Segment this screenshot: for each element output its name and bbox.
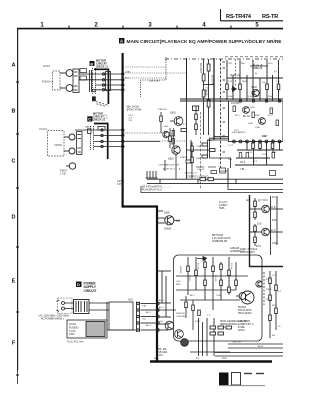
right edge vertical net xyxy=(269,196,283,255)
svg-text:D./L: D./L xyxy=(272,197,277,199)
pre-bus annotation rows xyxy=(158,164,197,175)
svg-text:3: 3 xyxy=(148,23,152,29)
svg-text:8.C: 8.C xyxy=(266,279,270,281)
box internal resistors xyxy=(187,262,238,293)
svg-text:D: D xyxy=(77,282,80,287)
ac plug xyxy=(57,300,74,312)
svg-text:R.B9: R.B9 xyxy=(196,158,202,160)
svg-text:C8.4: C8.4 xyxy=(268,63,273,65)
rec/pb jack xyxy=(66,163,76,169)
lower bus step wire xyxy=(228,172,283,190)
svg-text:C: C xyxy=(12,159,16,165)
footer legend black square xyxy=(219,373,229,386)
deck1 motor circuit caption xyxy=(96,59,108,69)
svg-text:R.B2: R.B2 xyxy=(255,115,260,117)
svg-text:2,t: 2,t xyxy=(196,357,199,360)
svg-text:1/4AC: 1/4AC xyxy=(125,71,131,74)
net tie box left xyxy=(220,168,226,173)
bus small links xyxy=(160,179,236,183)
transistor Q607 xyxy=(250,205,270,213)
svg-text:(DECK 1): (DECK 1) xyxy=(96,65,108,69)
svg-text:BC.AA: BC.AA xyxy=(243,115,250,118)
lower bus line xyxy=(141,186,283,193)
svg-text:RP7/AC08: RP7/AC08 xyxy=(212,234,224,237)
small transistor Q611 xyxy=(256,281,262,287)
mains assembly box xyxy=(109,302,133,330)
transistor D603 lower filled xyxy=(181,339,189,347)
net stub y66 xyxy=(250,65,268,67)
transformer secondary wires xyxy=(89,302,109,330)
svg-text:B.4: B.4 xyxy=(272,335,276,337)
svg-text:PWLA W3CK: PWLA W3CK xyxy=(238,312,252,315)
Q607 labels xyxy=(258,200,276,209)
deck1 marker B xyxy=(90,61,95,66)
svg-text:C.B2: C.B2 xyxy=(196,146,202,148)
svg-text:F: F xyxy=(12,341,16,347)
inner edge nets to connector xyxy=(158,271,176,330)
mid cluster transistor Q604 xyxy=(163,131,169,137)
mid enrich parts xyxy=(160,112,192,163)
right field horizontal nets xyxy=(180,78,283,165)
footer legend baseline xyxy=(219,385,265,387)
svg-text:C.B: C.B xyxy=(276,81,280,83)
svg-text:AEnna +B: AEnna +B xyxy=(252,64,263,67)
Q602 resistors xyxy=(191,142,194,168)
deck1 connector note xyxy=(104,115,108,120)
deck2 flex wedge xyxy=(88,126,106,133)
svg-text:BTC14.4ETP: BTC14.4ETP xyxy=(238,310,252,312)
upper dashes second row xyxy=(225,56,283,58)
mains rating text xyxy=(38,315,70,321)
power supply marker D xyxy=(76,282,82,288)
svg-text:G.m: G.m xyxy=(154,357,159,360)
power cord box xyxy=(67,320,107,338)
svg-text:R.C1: R.C1 xyxy=(234,130,240,132)
svg-text:LT/BT PO'3.3 (BT/AC): LT/BT PO'3.3 (BT/AC) xyxy=(186,176,209,179)
svg-text:0.1: 0.1 xyxy=(254,161,258,163)
svg-text:T.B1: T.B1 xyxy=(142,306,147,308)
svg-text:ACBBT/CBT .A: ACBBT/CBT .A xyxy=(238,323,254,326)
svg-text:G.D: G.D xyxy=(159,321,163,323)
box lower parts xyxy=(185,296,201,330)
svg-text:.BT/AC POW: .BT/AC POW xyxy=(126,108,142,112)
IC pin value boxes row2 xyxy=(239,153,274,159)
svg-text:A/01: A/01 xyxy=(128,299,134,302)
header rule vertical xyxy=(220,9,222,21)
deck1 coupling caps xyxy=(90,70,92,92)
svg-text:1: 1 xyxy=(40,23,44,29)
svg-text:C.A4: C.A4 xyxy=(163,125,168,128)
diode feed arrow xyxy=(157,257,207,272)
svg-text:TD.A: TD.A xyxy=(240,161,246,164)
svg-text:B: B xyxy=(12,109,16,115)
deck1 head circle upper xyxy=(60,70,73,77)
svg-text:AC.1: AC.1 xyxy=(159,299,165,302)
svg-text:E: E xyxy=(12,279,16,285)
Q608 labels xyxy=(256,224,276,249)
svg-text:(DECK 2): (DECK 2) xyxy=(93,118,105,122)
right col labels xyxy=(272,197,278,245)
IC601 inner labels xyxy=(232,107,274,138)
dashed net y133 xyxy=(124,132,163,134)
deck2 signal wires w pads xyxy=(75,129,160,148)
svg-text:Q./8: Q./8 xyxy=(257,224,262,226)
deck2 head circle upper xyxy=(64,134,75,140)
svg-text:B1.C: B1.C xyxy=(235,115,240,117)
right block edge ticks xyxy=(223,62,226,152)
svg-text:AC.1: AC.1 xyxy=(190,294,196,297)
svg-text:RS-TR474: RS-TR474 xyxy=(226,14,252,20)
pin net labels xyxy=(159,299,165,323)
transistor Q603 xyxy=(252,89,259,96)
IC601 inner transistor a xyxy=(243,107,250,114)
svg-text:D50. J60.: D50. J60. xyxy=(157,349,167,351)
power supply caption xyxy=(84,282,97,293)
svg-text:AC.2: AC.2 xyxy=(146,311,152,314)
transistor Q601 xyxy=(170,117,183,126)
box right labels xyxy=(266,279,273,301)
resistor chain R602 xyxy=(207,59,210,135)
right field labels xyxy=(230,64,268,171)
box lower labels xyxy=(176,313,211,323)
box chain labels xyxy=(179,263,232,282)
svg-text:R.2 2k: R.2 2k xyxy=(197,263,199,270)
deck1 connector housing xyxy=(106,72,111,91)
svg-text:Q.B6: Q.B6 xyxy=(255,127,261,129)
svg-text:A: A xyxy=(120,39,123,44)
svg-text:UP/DN: UP/DN xyxy=(54,143,62,147)
svg-text:TEPL: TEPL xyxy=(219,208,225,210)
svg-text:R.A2 10k: R.A2 10k xyxy=(158,108,168,111)
svg-text:1.BV: 1.BV xyxy=(208,140,213,142)
chain junction bar xyxy=(204,84,215,86)
svg-text:Bb.2: Bb.2 xyxy=(125,77,130,79)
plug dashed enclosure xyxy=(58,298,73,314)
pcb double bus lower xyxy=(147,183,283,185)
frame left line xyxy=(17,28,19,370)
svg-text:D.AT/08: D.AT/08 xyxy=(231,102,240,105)
svg-text:2.2k: 2.2k xyxy=(248,152,253,154)
svg-text:+A/LBCA/T: +A/LBCA/T xyxy=(149,80,161,83)
deck2 connector column xyxy=(91,126,94,150)
footer legend open square xyxy=(232,373,241,386)
deck2 motor circuit caption xyxy=(93,112,105,122)
title marker A xyxy=(119,38,124,43)
svg-text:CA/BO?: CA/BO? xyxy=(219,204,228,207)
L wire right xyxy=(227,168,229,182)
svg-text:R-SOUL 1.: R-SOUL 1. xyxy=(42,80,54,83)
IC601 wire bundle left xyxy=(208,137,231,169)
deck2 bus thick xyxy=(94,124,108,160)
lower left caption xyxy=(157,349,169,357)
pcb double bus upper xyxy=(147,178,283,180)
svg-text:B.GBL: B.GBL xyxy=(238,327,245,329)
mid enrich labels xyxy=(158,108,205,171)
frame top line xyxy=(17,28,283,30)
box internal nets xyxy=(176,257,248,310)
deck1 erase head block xyxy=(73,69,79,93)
svg-text:125V: 125V xyxy=(69,333,75,336)
right mid text block xyxy=(219,201,228,210)
svg-text:B.AT: B.AT xyxy=(256,245,262,248)
box small labels xyxy=(176,281,221,297)
lower mid nets xyxy=(190,318,230,356)
column ticks xyxy=(69,26,231,29)
right block dashed edge xyxy=(220,59,222,168)
bus caption lines xyxy=(142,186,172,192)
svg-text:3+C: 3+C xyxy=(222,357,227,360)
svg-text:B.A 22k C.9: B.A 22k C.9 xyxy=(185,172,197,175)
right field junction dots xyxy=(226,77,273,151)
svg-text:LTD: LTD xyxy=(266,299,270,301)
svg-text:LN605: LN605 xyxy=(164,228,172,231)
svg-text:8.AT: 8.AT xyxy=(272,219,277,222)
deck1 flex wedge xyxy=(92,89,109,106)
svg-text:T.B1: T.B1 xyxy=(228,159,233,161)
svg-text:SM10.8: SM10.8 xyxy=(238,307,247,309)
net tie box right xyxy=(270,171,276,176)
right edge chain labels xyxy=(272,275,282,337)
deck1 connector column xyxy=(93,68,96,94)
ground hatch xyxy=(146,171,158,178)
svg-text:4: 4 xyxy=(202,23,206,29)
deck2 head circle lower xyxy=(64,148,75,154)
right edge chain lower xyxy=(269,271,278,338)
transistor D605 xyxy=(157,216,180,225)
bottom bus nets xyxy=(215,344,283,356)
Q608 resistors xyxy=(254,224,257,246)
bundle resistor boxes xyxy=(211,171,217,174)
regulator rounded box xyxy=(174,255,263,341)
right inner dashed edge xyxy=(235,59,237,86)
svg-text:CIRCUIT: CIRCUIT xyxy=(84,289,97,293)
connector to pcb wires xyxy=(141,302,160,331)
svg-text:A/C.AB/T: A/C.AB/T xyxy=(199,63,202,74)
svg-text:3.3k: 3.3k xyxy=(248,96,253,98)
svg-text:D.B2: D.B2 xyxy=(195,321,200,323)
pin wire labels xyxy=(142,306,152,328)
deck1 head circle lower xyxy=(60,85,73,92)
svg-text:M-9C: M-9C xyxy=(43,64,51,68)
svg-text:ACBT/AC 8PT: ACBT/AC 8PT xyxy=(240,251,255,254)
svg-text:CCK2: CCK2 xyxy=(39,127,47,131)
svg-text:C.A9 47: C.A9 47 xyxy=(197,168,205,171)
svg-text:47: 47 xyxy=(278,91,281,93)
svg-text:AC.B: AC.B xyxy=(258,345,264,348)
connector CN601 pins xyxy=(137,302,140,333)
bus bottom labels xyxy=(246,199,268,202)
svg-text:Q603: Q603 xyxy=(251,87,257,89)
right mid note xyxy=(230,247,244,253)
svg-text:RS-TR: RS-TR xyxy=(262,14,278,20)
svg-text:C8.1: C8.1 xyxy=(228,63,233,65)
deck2 label text xyxy=(39,127,47,131)
chain value labels rotated xyxy=(199,63,214,96)
right field vertical nets xyxy=(227,60,280,165)
rec/pb jack label xyxy=(60,169,68,176)
svg-text:R8.2: R8.2 xyxy=(241,63,246,65)
svg-text:18.6: 18.6 xyxy=(263,200,268,202)
pcb edge note xyxy=(129,115,134,122)
deck 2 head dashed box xyxy=(48,131,65,157)
svg-text:2B/C: 2B/C xyxy=(176,284,181,286)
pre-bus dashes xyxy=(196,167,228,171)
svg-text:R.C2: R.C2 xyxy=(268,115,274,117)
pcb top dash-dot boundary xyxy=(165,58,283,60)
bottom bus labels xyxy=(232,342,264,349)
svg-text:2.2: 2.2 xyxy=(207,315,211,317)
svg-text:C.BD: C.BD xyxy=(272,243,278,245)
box top note xyxy=(240,248,258,254)
svg-text:R.B1 1k: R.B1 1k xyxy=(179,266,181,274)
svg-text:C.84: C.84 xyxy=(216,295,221,297)
svg-text:22: 22 xyxy=(278,326,281,328)
svg-text:7.BL: 7.BL xyxy=(240,169,245,171)
deck 1 head dashed box xyxy=(53,71,61,90)
deck1 input caps xyxy=(80,69,87,81)
svg-text:2: 2 xyxy=(94,23,98,29)
IC601 inner transistor b xyxy=(259,118,266,125)
svg-text:ACBBCRR NR: ACBBCRR NR xyxy=(212,240,228,243)
dotted signal entries deck1 xyxy=(123,67,186,78)
lower resistor row xyxy=(210,326,232,335)
svg-text:4.7: 4.7 xyxy=(278,291,282,293)
svg-text:AC POWER MAINS ): AC POWER MAINS ) xyxy=(41,317,64,320)
schematic note block xyxy=(212,234,231,243)
resistor chain R601 xyxy=(202,59,205,135)
pcb border thick xyxy=(123,53,157,361)
Q607 resistors xyxy=(254,198,257,220)
svg-text:LAB.CRBTL: LAB.CRBTL xyxy=(238,320,251,323)
svg-text:3+2.A IT: 3+2.A IT xyxy=(219,201,228,204)
deck1 label text xyxy=(43,64,51,68)
mid band labels xyxy=(196,140,213,160)
Q602 bus drops xyxy=(165,155,192,180)
svg-text:1k: 1k xyxy=(255,73,258,75)
svg-text:AC.B 47k: AC.B 47k xyxy=(211,75,214,86)
svg-text:AC.4: AC.4 xyxy=(146,324,152,327)
mid band components xyxy=(187,140,216,163)
svg-text:D605: D605 xyxy=(164,212,170,215)
D605 label xyxy=(164,212,180,231)
svg-text:P.BTL: P.BTL xyxy=(266,289,273,291)
mid cluster parts xyxy=(172,128,175,146)
svg-text:R.C8: R.C8 xyxy=(262,154,268,156)
svg-text:R.A8 1k: R.A8 1k xyxy=(180,156,188,159)
deck1 signal wires w pads xyxy=(79,73,124,91)
lower right caption xyxy=(238,320,254,332)
svg-text:L.8V: L.8V xyxy=(176,281,181,283)
header rule horizontal xyxy=(221,20,284,22)
border stub y211 xyxy=(157,210,163,212)
svg-text:C.B 47: C.B 47 xyxy=(188,275,190,282)
svg-text:LNB QRA..: LNB QRA.. xyxy=(157,351,169,354)
svg-text:Q602: Q602 xyxy=(168,158,175,161)
svg-text:Q601: Q601 xyxy=(170,112,177,115)
svg-text:AC.BT PC.1 — .B —: AC.BT PC.1 — .B — xyxy=(163,168,184,171)
svg-text:C.Bb 1k: C.Bb 1k xyxy=(205,87,208,96)
svg-text:R.4 4k: R.4 4k xyxy=(230,263,232,270)
svg-text:B: B xyxy=(90,62,93,66)
heavy net x214 xyxy=(213,58,215,140)
regulator lower caption xyxy=(220,320,247,329)
svg-text:Q.B5: Q.B5 xyxy=(250,107,256,109)
svg-text:C: C xyxy=(88,117,91,122)
svg-text:ACB.A: ACB.A xyxy=(238,329,245,332)
bus resistor pair xyxy=(200,178,206,181)
svg-text:Fu(1) PCLrnet: Fu(1) PCLrnet xyxy=(67,340,84,344)
svg-text:3.BTL BT: 3.BTL BT xyxy=(232,342,242,344)
footer small text xyxy=(154,357,227,360)
svg-text:R.B8 470: R.B8 470 xyxy=(176,313,186,315)
deck1 pin labels xyxy=(125,71,131,80)
svg-text:C.B4 6.8V: C.B4 6.8V xyxy=(176,316,186,318)
svg-text:C.C4: C.C4 xyxy=(228,145,234,147)
svg-text:0.22: 0.22 xyxy=(228,81,233,83)
svg-text:AC.2: AC.2 xyxy=(159,306,165,309)
svg-text:2C1: 2C1 xyxy=(129,120,134,122)
svg-text:C.8 10: C.8 10 xyxy=(214,275,216,282)
row ticks xyxy=(16,82,19,375)
box dashed net xyxy=(263,272,265,305)
dotted boundary staircase xyxy=(141,57,167,97)
power cord wire xyxy=(107,329,136,331)
svg-text:LAB.D: LAB.D xyxy=(85,126,92,129)
svg-text:NEBLJOM BCFA: NEBLJOM BCFA xyxy=(220,323,238,326)
IC601 inner parts xyxy=(233,106,279,126)
svg-text:A.BT.A: A.BT.A xyxy=(117,180,124,183)
svg-text:5: 5 xyxy=(255,23,259,29)
transistor D601 lower xyxy=(165,321,174,330)
right mid vertical heavy net xyxy=(249,195,251,267)
net y141 xyxy=(124,140,186,142)
IC601 dolby block xyxy=(229,100,284,143)
right mid heavy horizontal xyxy=(250,266,284,268)
svg-text:33: 33 xyxy=(274,152,277,154)
svg-text:2SD8.. 8CT/ACA: 2SD8.. 8CT/ACA xyxy=(240,248,258,251)
svg-text:4.7: 4.7 xyxy=(274,71,278,73)
svg-text:MAIN CIRCUIT(PLAYBACK EQ AMP/P: MAIN CIRCUIT(PLAYBACK EQ AMP/POWER SUPPL… xyxy=(127,39,282,44)
left bus label xyxy=(117,180,124,186)
svg-text:H.A: H.A xyxy=(176,220,180,223)
pcb bottom thick line xyxy=(150,360,272,363)
svg-text:D.B6: D.B6 xyxy=(248,123,253,125)
mid dashed block edge xyxy=(200,112,202,190)
power transistor Q610 xyxy=(236,291,254,304)
svg-text:R.BT: R.BT xyxy=(262,136,268,138)
svg-text:Q./7: Q./7 xyxy=(258,200,263,202)
deck2 marker C xyxy=(87,116,92,121)
svg-text:G.D: G.D xyxy=(142,319,146,321)
svg-text:2 FU SCRLLETTA: 2 FU SCRLLETTA xyxy=(212,237,231,240)
Q601 bias cluster xyxy=(193,106,199,135)
Q610 caption xyxy=(238,307,252,315)
svg-text:PC/ACAPLAT AC.A: PC/ACAPLAT AC.A xyxy=(142,189,162,192)
svg-text:J.672: J.672 xyxy=(117,184,123,186)
svg-text:C.1: C.1 xyxy=(272,275,276,277)
svg-text:C.B7 R.AB 1/2W .047: C.B7 R.AB 1/2W .047 xyxy=(158,164,180,167)
power transformer T601 xyxy=(74,300,90,314)
transistor Q608 xyxy=(250,228,270,236)
svg-text:LABUAB.: LABUAB. xyxy=(230,247,240,250)
footer legend dashes xyxy=(244,373,252,375)
diode D601 xyxy=(231,87,237,92)
deck1 bus thick xyxy=(94,69,108,104)
transistor D602 lower xyxy=(175,330,184,339)
svg-text:C/8BE.AB: C/8BE.AB xyxy=(252,67,263,70)
svg-text:R8.B: R8.B xyxy=(242,81,247,83)
vertical net x186 xyxy=(186,58,188,99)
